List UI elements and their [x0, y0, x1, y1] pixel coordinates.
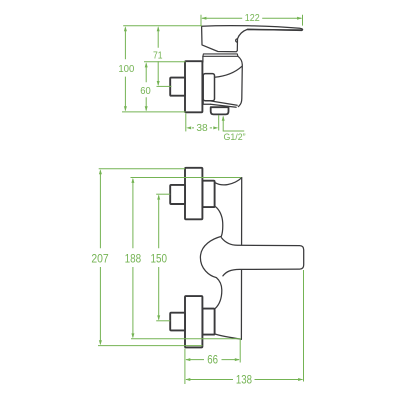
svg-text:138: 138	[236, 374, 252, 387]
outlet nipple G1/2	[211, 107, 229, 114]
ext line at top inlet centre	[156, 193, 170, 195]
svg-text:122: 122	[245, 13, 260, 25]
arrow 207 bottom	[99, 340, 102, 345]
arrow 66 right	[235, 358, 240, 361]
neck groove bump	[236, 39, 238, 42]
top union nut (front view)	[202, 181, 214, 207]
svg-text:188: 188	[125, 253, 142, 266]
bottom escutcheon (front view)	[185, 296, 202, 347]
svg-text:207: 207	[91, 253, 108, 266]
svg-text:71: 71	[153, 49, 163, 61]
bottom inlet fitting (front view)	[170, 313, 185, 331]
arrow 71 top	[157, 26, 160, 31]
arrow 38 left	[186, 126, 191, 129]
ext line at bottom escutcheon bottom	[98, 345, 202, 347]
spout wedge upper slant	[210, 101, 237, 105]
body right edge (front view)	[240, 178, 242, 340]
body bottom-left step	[203, 101, 210, 105]
arrow 38 right	[213, 126, 218, 129]
ext vertical at lever tip	[303, 270, 305, 382]
arrow 100 bottom	[124, 106, 127, 111]
body top flare	[215, 178, 242, 185]
body interior spout curve	[215, 66, 242, 77]
svg-text:66: 66	[207, 354, 218, 367]
ext vertical at outlet centre	[218, 115, 220, 131]
arrows: top view	[124, 17, 302, 130]
ext line at body bottom	[131, 338, 241, 340]
dim line 66	[186, 359, 239, 361]
arrow 150 top	[157, 195, 160, 200]
arrow G1/2 up	[222, 116, 225, 121]
dim line 207	[99, 171, 101, 344]
svg-text:G1/2”: G1/2”	[224, 132, 246, 142]
labels: bottom view	[91, 253, 252, 387]
body left outline with handle hub	[200, 207, 222, 309]
lever blade underside (thicker edge)	[248, 28, 302, 31]
tick at inlet centerline	[157, 85, 172, 87]
arrow 122 right	[297, 17, 302, 20]
ext line at escutcheon top	[144, 61, 185, 63]
arrow 100 top	[124, 26, 127, 31]
dim line 138	[186, 379, 303, 381]
bottom union nut (front view)	[202, 309, 214, 335]
handle lever (front view)	[217, 238, 304, 276]
arrow 207 top	[99, 169, 102, 174]
svg-text:150: 150	[150, 253, 167, 266]
arrow 60 top	[145, 62, 148, 67]
labels: top view	[118, 13, 259, 142]
arrow 138 left	[185, 378, 190, 381]
top escutcheon (front view)	[185, 168, 202, 220]
top inlet fitting (front view)	[170, 185, 185, 204]
trim ring band	[203, 54, 238, 56]
arrow 60 bottom	[145, 106, 148, 111]
ext line at top escutcheon top	[99, 168, 185, 170]
ext vertical at escutcheon left	[184, 349, 186, 385]
svg-text:38: 38	[196, 123, 208, 134]
G1/2 leader line	[223, 117, 244, 132]
arrow 188 bottom	[131, 333, 134, 338]
spout wedge lower slant	[211, 104, 237, 107]
wall union nut (side view)	[203, 74, 214, 101]
dim line 150	[158, 196, 160, 320]
body bottom flare	[215, 334, 241, 339]
ext vertical at handle tip	[302, 15, 304, 26]
dim line 122	[202, 17, 302, 19]
body left edge above escutcheon	[202, 56, 204, 62]
dim line 100	[124, 28, 126, 111]
ext line at escutcheon bottom	[122, 111, 186, 113]
arrow 150 bottom	[157, 315, 160, 320]
dim line 38	[192, 127, 212, 129]
dim line 71	[157, 28, 159, 85]
wall escutcheon (side view)	[185, 61, 202, 112]
arrow 66 left	[185, 358, 190, 361]
ext vertical at body right	[239, 340, 241, 363]
ext line at body top	[131, 177, 242, 179]
arrow 71 bottom	[157, 81, 160, 86]
ext line at bottom inlet centre	[156, 320, 170, 322]
arrows: bottom view	[99, 169, 303, 381]
dim line 60	[145, 64, 147, 111]
ext vertical at escutcheon face	[185, 114, 187, 132]
lever handle blade (side view)	[202, 26, 303, 52]
dim line 188	[132, 179, 134, 337]
svg-text:100: 100	[118, 64, 134, 75]
inlet fitting (side view)	[170, 78, 185, 96]
arrow 138 right	[298, 378, 303, 381]
ext line at lever top	[123, 25, 202, 27]
arrow 122 left	[201, 17, 206, 20]
ext vertical at handle left	[200, 15, 202, 26]
svg-text:60: 60	[140, 85, 151, 96]
arrow 188 top	[131, 178, 134, 183]
body right edge (shoulder to bottom)	[238, 56, 242, 106]
